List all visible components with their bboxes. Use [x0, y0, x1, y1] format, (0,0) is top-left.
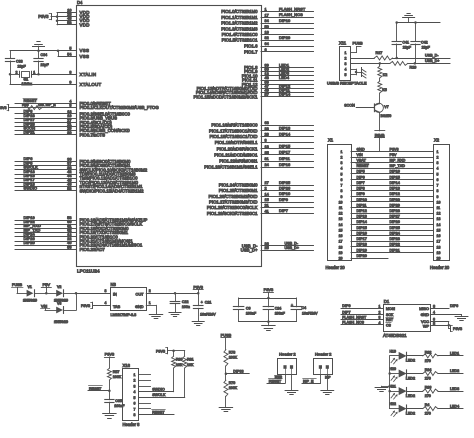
- svg-text:DIP15: DIP15: [390, 175, 400, 179]
- svg-text:VBAT: VBAT: [357, 159, 367, 163]
- svg-text:CS: CS: [386, 323, 392, 327]
- svg-text:P3V3: P3V3: [264, 287, 274, 292]
- svg-text:LED4: LED4: [450, 404, 459, 408]
- svg-text:P3V3: P3V3: [193, 284, 203, 289]
- svg-text:IN: IN: [113, 293, 117, 297]
- svg-text:10uF/16V: 10uF/16V: [200, 313, 216, 317]
- svg-text:DIP7: DIP7: [357, 181, 365, 185]
- svg-text:57: 57: [265, 93, 269, 97]
- svg-text:DIP9: DIP9: [279, 197, 288, 202]
- svg-text:4: 4: [134, 390, 136, 394]
- svg-text:DIP28: DIP28: [390, 209, 400, 213]
- svg-text:5: 5: [345, 73, 347, 77]
- svg-text:X2: X2: [434, 138, 440, 143]
- svg-text:XTALOUT: XTALOUT: [80, 82, 102, 87]
- svg-text:SWDIO: SWDIO: [152, 388, 165, 392]
- svg-text:TAB: TAB: [113, 305, 121, 309]
- svg-text:VIN: VIN: [41, 304, 47, 308]
- svg-text:10: 10: [339, 200, 343, 204]
- svg-text:R81: R81: [187, 358, 194, 362]
- svg-text:X16: X16: [123, 363, 131, 368]
- svg-text:AT45DB321: AT45DB321: [383, 333, 407, 338]
- svg-text:17: 17: [339, 240, 343, 244]
- svg-text:PIO1.20/nDSR/SCK1: PIO1.20/nDSR/SCK1: [217, 146, 258, 151]
- svg-text:VDD: VDD: [80, 22, 90, 27]
- svg-text:DIP12: DIP12: [390, 192, 400, 196]
- svg-text:VCC: VCC: [421, 320, 429, 324]
- svg-text:PUSB: PUSB: [12, 283, 23, 287]
- svg-text:41: 41: [265, 209, 269, 213]
- svg-text:DIP15: DIP15: [279, 144, 290, 149]
- svg-text:63: 63: [265, 121, 269, 125]
- svg-text:PIO1.15/nDCD/CT16B0M2/SCK1: PIO1.15/nDCD/CT16B0M2/SCK1: [193, 94, 258, 99]
- svg-text:2: 2: [149, 289, 151, 293]
- svg-text:1N5019: 1N5019: [23, 297, 38, 302]
- svg-text:DIP6: DIP6: [357, 175, 365, 179]
- svg-text:LED2: LED2: [406, 394, 415, 398]
- svg-text:PUSB: PUSB: [221, 333, 232, 338]
- svg-text:DIP18: DIP18: [357, 243, 367, 247]
- svg-text:22pF: 22pF: [422, 46, 431, 50]
- svg-text:PIO1.25/CT32B0M1: PIO1.25/CT32B0M1: [219, 188, 258, 193]
- svg-text:1: 1: [437, 150, 439, 154]
- svg-text:DIP21: DIP21: [24, 130, 35, 135]
- svg-text:DIP26: DIP26: [390, 220, 400, 224]
- svg-text:FLASH_NRST: FLASH_NRST: [279, 6, 306, 11]
- svg-text:DIP22: DIP22: [390, 243, 400, 247]
- svg-text:PIO1.3/CT32B1M3: PIO1.3/CT32B1M3: [221, 26, 258, 31]
- svg-text:H19: H19: [390, 349, 396, 353]
- svg-text:DIP9: DIP9: [357, 192, 365, 196]
- svg-text:V7: V7: [384, 105, 389, 109]
- svg-text:USB/B RECEPTACLE: USB/B RECEPTACLE: [327, 80, 367, 85]
- svg-text:V1: V1: [28, 285, 32, 289]
- svg-text:Header 8: Header 8: [123, 422, 141, 427]
- svg-text:N3: N3: [111, 282, 117, 287]
- svg-text:22pF: 22pF: [403, 46, 412, 50]
- svg-text:R56: R56: [22, 103, 29, 107]
- svg-text:5: 5: [437, 172, 439, 176]
- svg-text:2: 2: [379, 311, 381, 315]
- svg-text:D4: D4: [77, 0, 83, 5]
- svg-text:5: 5: [134, 396, 136, 400]
- svg-text:11: 11: [437, 206, 441, 210]
- svg-text:PIO1.0/CT32B1M0: PIO1.0/CT32B1M0: [221, 9, 258, 14]
- svg-text:4: 4: [345, 68, 347, 72]
- svg-text:R84: R84: [425, 368, 432, 372]
- svg-text:4: 4: [379, 321, 381, 325]
- svg-text:DIP14: DIP14: [390, 181, 400, 185]
- svg-text:+: +: [201, 300, 203, 304]
- svg-text:ISP_RXD: ISP_RXD: [390, 159, 406, 163]
- svg-text:3: 3: [437, 161, 439, 165]
- svg-text:DIP17: DIP17: [279, 150, 290, 155]
- svg-text:4: 4: [437, 167, 439, 171]
- svg-text:1N5019: 1N5019: [54, 319, 69, 324]
- svg-text:R29: R29: [410, 66, 417, 70]
- svg-text:GND: GND: [135, 305, 144, 309]
- svg-text:PIO1.18/CT16B1C1/TXD: PIO1.18/CT16B1C1/TXD: [209, 134, 257, 139]
- svg-text:PIO1.4/CT32B1C0: PIO1.4/CT32B1C0: [222, 32, 258, 37]
- svg-text:3: 3: [69, 104, 71, 108]
- svg-text:DIP8: DIP8: [357, 187, 365, 191]
- svg-text:C6: C6: [246, 306, 251, 310]
- svg-text:R57: R57: [113, 370, 120, 374]
- svg-text:LED2: LED2: [406, 376, 415, 380]
- svg-text:DIP9: DIP9: [342, 304, 350, 308]
- svg-text:V2: V2: [57, 285, 61, 289]
- svg-text:54: 54: [67, 52, 71, 56]
- svg-text:6: 6: [437, 178, 439, 182]
- svg-text:BS250: BS250: [381, 114, 392, 118]
- svg-text:DIP26: DIP26: [279, 186, 290, 191]
- svg-text:P3V3: P3V3: [390, 147, 399, 151]
- svg-text:ISP: ISP: [325, 376, 331, 380]
- svg-text:USB_D-: USB_D-: [285, 242, 299, 246]
- svg-text:DIP5: DIP5: [357, 170, 365, 174]
- svg-text:12Mhz: 12Mhz: [22, 82, 33, 86]
- svg-text:LED2: LED2: [450, 369, 459, 373]
- svg-text:RST: RST: [386, 318, 394, 322]
- svg-text:C21: C21: [205, 300, 212, 304]
- svg-text:PIO1.16/nRI/CT16B0C0: PIO1.16/nRI/CT16B0C0: [211, 123, 258, 128]
- svg-text:DIP23: DIP23: [390, 237, 400, 241]
- svg-text:19: 19: [339, 251, 343, 255]
- svg-text:6: 6: [433, 317, 435, 321]
- svg-text:270: 270: [425, 394, 431, 398]
- svg-text:PIO1.17/CT16B0C1/RXD: PIO1.17/CT16B0C1/RXD: [209, 128, 257, 133]
- svg-text:ISP_TXD: ISP_TXD: [390, 164, 406, 168]
- svg-text:100K: 100K: [113, 375, 122, 379]
- svg-text:RESET: RESET: [152, 410, 165, 414]
- svg-text:25: 25: [265, 246, 269, 250]
- svg-text:4: 4: [433, 311, 435, 315]
- svg-text:PIO0.7/nCTS: PIO0.7/nCTS: [80, 132, 106, 137]
- svg-text:1: 1: [379, 304, 381, 308]
- svg-text:D1: D1: [384, 299, 390, 304]
- svg-text:10uF/16V: 10uF/16V: [302, 312, 318, 316]
- svg-text:ISP_E: ISP_E: [46, 103, 57, 107]
- svg-text:PIO1.24/CT32B0M0: PIO1.24/CT32B0M0: [219, 183, 258, 188]
- svg-text:10K: 10K: [38, 103, 45, 107]
- svg-text:5: 5: [69, 47, 71, 51]
- svg-text:10: 10: [437, 200, 441, 204]
- svg-text:31: 31: [265, 157, 269, 161]
- svg-text:H20: H20: [390, 367, 396, 371]
- svg-text:1: 1: [345, 51, 347, 55]
- svg-text:MOSI: MOSI: [386, 307, 395, 311]
- svg-text:P3V3: P3V3: [0, 106, 7, 110]
- svg-text:23: 23: [265, 127, 269, 131]
- svg-text:DIP15: DIP15: [357, 226, 367, 230]
- svg-text:PIO1.7: PIO1.7: [244, 49, 258, 54]
- svg-text:22pF: 22pF: [18, 64, 27, 68]
- svg-text:LED3: LED3: [450, 387, 459, 391]
- svg-text:100nF: 100nF: [114, 404, 125, 408]
- svg-text:PIO1.6: PIO1.6: [244, 44, 258, 49]
- svg-text:1: 1: [341, 150, 343, 154]
- svg-text:C22: C22: [182, 300, 189, 304]
- svg-text:DIP20: DIP20: [24, 240, 36, 245]
- svg-text:DIP7: DIP7: [342, 310, 350, 314]
- svg-text:100K: 100K: [229, 356, 238, 360]
- svg-text:PIO1.19/nDTR/SSEL1: PIO1.19/nDTR/SSEL1: [215, 140, 258, 145]
- svg-text:GND: GND: [421, 313, 430, 317]
- svg-text:8: 8: [134, 413, 136, 417]
- svg-text:PIO1.2/CT32B1M2: PIO1.2/CT32B1M2: [221, 21, 258, 26]
- svg-text:PIO1.27/CT32B0M3/TXD: PIO1.27/CT32B0M3/TXD: [209, 200, 257, 205]
- svg-text:C24: C24: [275, 306, 282, 310]
- svg-text:PIO1.21/nDCD/MISO1: PIO1.21/nDCD/MISO1: [214, 152, 258, 157]
- svg-text:DIP19: DIP19: [357, 248, 367, 252]
- svg-text:2: 2: [437, 156, 439, 160]
- svg-text:LED2: LED2: [406, 411, 415, 415]
- svg-text:DIP13: DIP13: [279, 126, 290, 131]
- svg-text:C33: C33: [16, 59, 23, 63]
- svg-text:2: 2: [134, 379, 136, 383]
- svg-text:PIO0.23/AD7: PIO0.23/AD7: [80, 247, 106, 252]
- svg-text:DIP7: DIP7: [279, 208, 288, 213]
- svg-text:52: 52: [67, 187, 71, 191]
- svg-text:270: 270: [425, 377, 431, 381]
- svg-text:19: 19: [437, 251, 441, 255]
- svg-text:DIP10: DIP10: [279, 191, 291, 196]
- svg-text:C35: C35: [115, 399, 122, 403]
- svg-text:XTALIN: XTALIN: [80, 72, 97, 77]
- svg-text:SWCLK: SWCLK: [152, 393, 166, 397]
- svg-text:Header 20: Header 20: [326, 265, 346, 270]
- svg-text:18: 18: [265, 145, 269, 149]
- svg-text:DIP24: DIP24: [390, 232, 400, 236]
- svg-text:C41: C41: [402, 41, 409, 45]
- svg-text:R82: R82: [425, 351, 432, 355]
- svg-text:8: 8: [69, 70, 71, 74]
- svg-text:DIP16: DIP16: [357, 232, 367, 236]
- svg-text:R80: R80: [176, 358, 183, 362]
- svg-text:20: 20: [437, 257, 441, 261]
- svg-text:R27: R27: [376, 51, 383, 55]
- svg-text:PIO1.22/nRI/MOSI1: PIO1.22/nRI/MOSI1: [219, 159, 258, 164]
- svg-text:FLASH_NCS: FLASH_NCS: [279, 12, 303, 17]
- svg-text:34: 34: [265, 19, 269, 23]
- svg-text:3: 3: [341, 161, 343, 165]
- svg-text:GND: GND: [357, 147, 366, 151]
- svg-text:3: 3: [265, 139, 267, 143]
- svg-text:3: 3: [379, 316, 381, 320]
- svg-text:USB_D-: USB_D-: [425, 54, 439, 58]
- svg-text:DIP30: DIP30: [390, 198, 400, 202]
- svg-text:DIP33: DIP33: [233, 370, 243, 374]
- svg-text:2: 2: [345, 56, 347, 60]
- svg-text:18: 18: [339, 245, 343, 249]
- svg-text:USB_D+: USB_D+: [425, 59, 439, 63]
- svg-text:28: 28: [265, 133, 269, 137]
- svg-text:8: 8: [433, 304, 435, 308]
- svg-text:1: 1: [265, 8, 267, 12]
- svg-text:3: 3: [105, 289, 107, 293]
- svg-text:1: 1: [134, 373, 136, 377]
- svg-text:FLASH_NCS: FLASH_NCS: [342, 321, 364, 325]
- svg-text:7: 7: [437, 184, 439, 188]
- svg-text:10K: 10K: [187, 363, 194, 367]
- svg-text:1: 1: [33, 70, 35, 74]
- svg-text:2: 2: [265, 187, 267, 191]
- svg-text:14: 14: [339, 223, 343, 227]
- svg-text:30: 30: [67, 131, 71, 135]
- svg-text:PIO1.29/SCK0/CT32B0C1: PIO1.29/SCK0/CT32B0C1: [207, 211, 258, 216]
- svg-text:24: 24: [265, 163, 269, 167]
- svg-text:PIO1.28/CT32B0C0/SCLK: PIO1.28/CT32B0C0/SCLK: [207, 205, 258, 210]
- svg-text:16: 16: [339, 234, 343, 238]
- svg-text:H21: H21: [390, 385, 396, 389]
- svg-text:P3V3: P3V3: [156, 349, 165, 353]
- svg-text:LED1: LED1: [450, 352, 459, 356]
- svg-text:2: 2: [341, 156, 343, 160]
- svg-text:+: +: [291, 303, 293, 307]
- svg-text:Header 2: Header 2: [315, 351, 332, 356]
- svg-text:PIO1.1/CT32B1M1: PIO1.1/CT32B1M1: [221, 15, 258, 20]
- svg-text:C4: C4: [302, 306, 307, 310]
- svg-text:SWDIO/PIO0.15/AD4/CT32B1M2: SWDIO/PIO0.15/AD4/CT32B1M2: [80, 188, 145, 193]
- svg-text:DIP14: DIP14: [357, 220, 367, 224]
- svg-text:18: 18: [437, 245, 441, 249]
- svg-text:6: 6: [341, 178, 343, 182]
- svg-text:USB_D+: USB_D+: [285, 246, 299, 250]
- svg-text:R86: R86: [425, 386, 432, 390]
- svg-text:DIP29: DIP29: [390, 203, 400, 207]
- svg-text:25: 25: [265, 151, 269, 155]
- svg-text:DIP16: DIP16: [390, 170, 400, 174]
- svg-text:DIP11: DIP11: [357, 203, 367, 207]
- svg-text:DIP11: DIP11: [279, 156, 290, 161]
- svg-text:DIP6: DIP6: [450, 304, 458, 308]
- svg-text:VSS: VSS: [80, 48, 90, 53]
- svg-text:K5: K5: [382, 88, 386, 92]
- svg-text:LM1117IMP-3.3: LM1117IMP-3.3: [111, 313, 137, 317]
- svg-text:LPC11U24: LPC11U24: [77, 269, 100, 274]
- svg-text:MISO: MISO: [419, 307, 429, 311]
- svg-text:8: 8: [437, 189, 439, 193]
- svg-text:270: 270: [425, 412, 431, 416]
- svg-text:15: 15: [437, 228, 441, 232]
- svg-text:13: 13: [339, 217, 343, 221]
- svg-text:DIP21: DIP21: [390, 248, 400, 252]
- svg-text:H22: H22: [390, 402, 396, 406]
- svg-text:OUT: OUT: [135, 293, 144, 297]
- svg-text:DIP14: DIP14: [279, 92, 291, 97]
- svg-text:FLASH_NRST: FLASH_NRST: [342, 315, 367, 319]
- svg-text:DIP17: DIP17: [357, 237, 367, 241]
- svg-text:100nF: 100nF: [275, 312, 286, 316]
- svg-text:3: 3: [345, 62, 347, 66]
- svg-text:PUSB: PUSB: [353, 41, 364, 45]
- svg-text:DIP16: DIP16: [279, 162, 290, 167]
- svg-text:8: 8: [341, 189, 343, 193]
- svg-text:21: 21: [265, 204, 269, 208]
- svg-text:13: 13: [437, 217, 441, 221]
- svg-text:WP: WP: [423, 324, 430, 328]
- svg-text:SWDIO: SWDIO: [24, 186, 38, 191]
- svg-text:5: 5: [341, 172, 343, 176]
- svg-text:100n: 100n: [182, 305, 190, 309]
- svg-text:P3V3: P3V3: [105, 352, 115, 357]
- svg-text:9: 9: [437, 195, 439, 199]
- svg-text:X11: X11: [339, 41, 347, 46]
- svg-text:DIP25: DIP25: [390, 226, 400, 230]
- svg-text:P3V3: P3V3: [81, 304, 90, 308]
- svg-text:DIP10: DIP10: [279, 18, 291, 23]
- svg-text:16: 16: [437, 234, 441, 238]
- svg-text:3: 3: [134, 384, 136, 388]
- svg-text:20: 20: [339, 257, 343, 261]
- svg-text:DIP25: DIP25: [279, 180, 290, 185]
- svg-text:DIP13: DIP13: [390, 187, 400, 191]
- svg-text:DIP10: DIP10: [357, 198, 367, 202]
- svg-text:R79: R79: [229, 381, 236, 385]
- svg-text:P5V: P5V: [390, 153, 398, 157]
- svg-text:17: 17: [437, 240, 441, 244]
- svg-text:12: 12: [437, 212, 441, 216]
- svg-text:14: 14: [265, 192, 269, 196]
- svg-text:10K: 10K: [176, 363, 183, 367]
- svg-text:P3V3: P3V3: [375, 134, 385, 139]
- svg-text:P3V3: P3V3: [453, 327, 462, 331]
- svg-text:LED4: LED4: [279, 75, 290, 80]
- svg-text:50: 50: [265, 25, 269, 29]
- svg-text:C42: C42: [421, 41, 428, 45]
- svg-text:R4: R4: [425, 403, 430, 407]
- svg-text:6: 6: [265, 48, 267, 52]
- svg-text:V3: V3: [57, 301, 61, 305]
- svg-text:DIP20: DIP20: [357, 254, 367, 258]
- svg-text:27: 27: [265, 181, 269, 185]
- svg-text:P3V3: P3V3: [38, 14, 49, 19]
- svg-text:15: 15: [339, 228, 343, 232]
- svg-text:4: 4: [341, 167, 343, 171]
- svg-text:PIO1.26/CT32B0M2/RXD: PIO1.26/CT32B0M2/RXD: [209, 194, 258, 199]
- svg-text:14: 14: [437, 223, 441, 227]
- svg-text:7: 7: [341, 184, 343, 188]
- svg-text:Header 2: Header 2: [279, 351, 296, 356]
- svg-text:7: 7: [134, 407, 136, 411]
- svg-text:PIO0.1/CLKOUT/CT32B0M2/USB_FTO: PIO0.1/CLKOUT/CT32B0M2/USB_FTOG: [80, 105, 160, 110]
- svg-text:SCK: SCK: [386, 313, 394, 317]
- svg-text:100K: 100K: [229, 386, 238, 390]
- svg-text:2: 2: [16, 70, 18, 74]
- svg-text:C34: C34: [41, 53, 48, 57]
- svg-text:12: 12: [339, 212, 343, 216]
- svg-text:DIP13: DIP13: [357, 215, 367, 219]
- svg-text:ISP_E: ISP_E: [303, 380, 314, 384]
- svg-text:PIO1.23/CT16B1M1/SSEL1: PIO1.23/CT16B1M1/SSEL1: [204, 165, 258, 170]
- svg-text:DIP29: DIP29: [279, 35, 290, 40]
- svg-text:64: 64: [265, 42, 269, 46]
- svg-text:9: 9: [341, 195, 343, 199]
- svg-text:SCON: SCON: [344, 104, 355, 108]
- svg-text:15: 15: [265, 198, 269, 202]
- svg-text:P5V: P5V: [43, 282, 51, 287]
- svg-text:K2: K2: [383, 73, 387, 77]
- svg-text:LED2: LED2: [406, 359, 415, 363]
- svg-text:RESET: RESET: [357, 164, 370, 168]
- svg-text:USB_D+: USB_D+: [241, 248, 258, 253]
- svg-text:RESET: RESET: [269, 380, 282, 384]
- svg-text:X1: X1: [328, 138, 334, 143]
- svg-text:32: 32: [265, 36, 269, 40]
- svg-text:DIP14: DIP14: [279, 131, 291, 136]
- svg-text:R78: R78: [229, 350, 236, 354]
- svg-text:Header 20: Header 20: [430, 265, 450, 270]
